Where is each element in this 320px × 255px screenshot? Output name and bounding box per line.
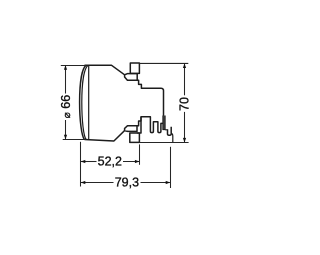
svg-text:52,2: 52,2 bbox=[98, 154, 122, 168]
svg-text:79,3: 79,3 bbox=[115, 176, 139, 190]
svg-text:⌀ 66: ⌀ 66 bbox=[59, 95, 73, 118]
svg-text:70: 70 bbox=[177, 97, 191, 111]
